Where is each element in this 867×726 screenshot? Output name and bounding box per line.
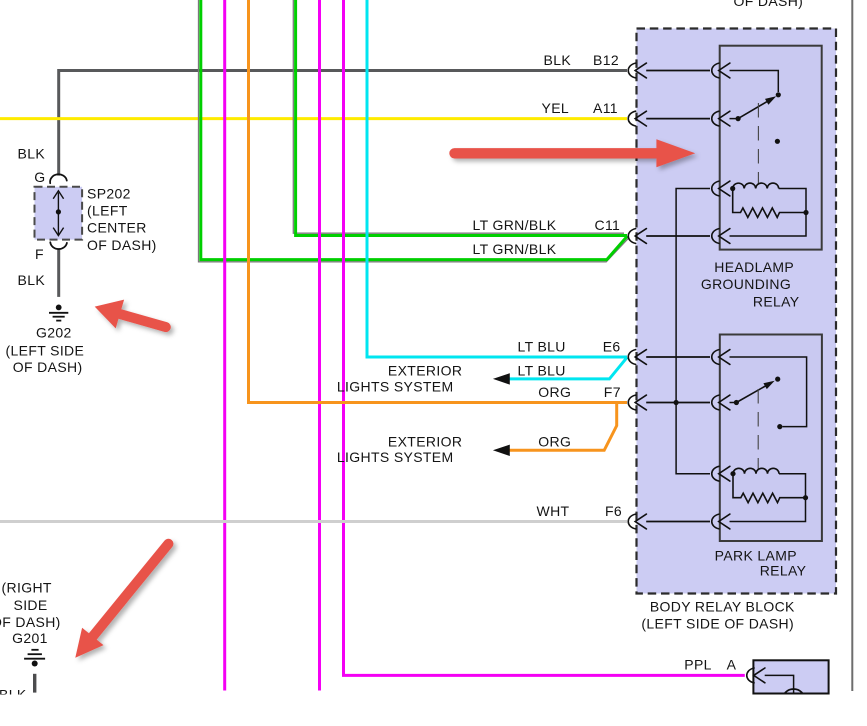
wire LT BLU to pin E6 [367, 0, 627, 357]
svg-text:C11: C11 [595, 217, 621, 233]
splice terminal G arc [50, 174, 67, 183]
svg-text:LT GRN/BLK: LT GRN/BLK [473, 217, 557, 233]
pin B12 outer connector [628, 63, 646, 78]
wire headlamp coil pin to park coil pin via junction [676, 189, 710, 474]
pin F7 inner connector [712, 395, 730, 410]
headlamp relay switch arm [730, 118, 739, 120]
park relay switch arrowhead [763, 381, 774, 389]
svg-text:CENTER: CENTER [87, 219, 147, 235]
svg-text:SP202: SP202 [87, 185, 131, 201]
svg-text:BODY RELAY BLOCK: BODY RELAY BLOCK [650, 599, 795, 615]
headlamp relay coil left junction [730, 186, 735, 191]
svg-text:F7: F7 [604, 384, 621, 400]
headlamp relay switch arrowhead [765, 96, 776, 105]
wire LT GRN/BLK #1 (upper, into C11) [296, 0, 627, 236]
svg-text:G201: G201 [12, 630, 48, 646]
wire pin F6 outer to inner [646, 521, 710, 523]
park relay switch pivot [734, 400, 739, 405]
wire BLK: vertical+horizontal dark gray to pin B12 [59, 71, 627, 176]
svg-text:ORG: ORG [538, 384, 571, 400]
splice terminal F arc [50, 242, 67, 249]
wire pin A11 outer to inner [646, 118, 710, 120]
svg-text:(LEFT: (LEFT [87, 202, 128, 218]
wire ORG to pin F7 [249, 0, 628, 403]
svg-text:SIDE: SIDE [14, 597, 48, 613]
pin A connector [747, 668, 765, 683]
svg-text:BLK: BLK [18, 146, 46, 162]
park relay switch arm [730, 402, 737, 404]
svg-text:RELAY: RELAY [760, 562, 807, 578]
svg-text:LT BLU: LT BLU [518, 338, 566, 354]
wire PPL #2 (full height) [318, 0, 321, 691]
svg-text:EXTERIOR: EXTERIOR [388, 362, 462, 378]
bottom crop mask [0, 695, 867, 726]
splice SP202 internal arrowed line [53, 191, 63, 236]
red annotation arrow at G201 [75, 539, 173, 658]
headlamp relay coil/resistor right junction [803, 210, 808, 215]
headlamp relay actuation dashed link [757, 103, 759, 184]
headlamp relay coil right lead [779, 189, 806, 213]
svg-text:EXTERIOR: EXTERIOR [388, 433, 462, 449]
park relay resistor [733, 474, 806, 503]
svg-text:LIGHTS SYSTEM: LIGHTS SYSTEM [337, 449, 454, 465]
wire LT GRN/BLK #2 black tracer [199, 0, 629, 262]
wire pin E6 outer to inner [646, 356, 710, 358]
park relay coil/resistor right junction [803, 495, 808, 500]
wire pin F7 outer to inner [646, 402, 710, 404]
right border line [851, 0, 853, 691]
svg-text:BLK: BLK [544, 52, 572, 68]
wire BLK: splice F to ground G202 [57, 250, 60, 297]
svg-text:B12: B12 [593, 52, 619, 68]
ground G201 [24, 650, 45, 667]
svg-text:PPL: PPL [684, 657, 712, 673]
ground G202 [49, 305, 68, 321]
svg-text:LT BLU: LT BLU [518, 362, 566, 378]
svg-text:(LEFT SIDE OF DASH): (LEFT SIDE OF DASH) [641, 615, 794, 631]
svg-text:HEADLAMP: HEADLAMP [714, 259, 794, 275]
park relay open contact [775, 377, 780, 382]
park relay wire junction to F6 [730, 498, 806, 522]
wire PPL #3 to pin A of bottom connector [344, 0, 745, 675]
headlamp relay: B12 internal wire to NC contact [730, 71, 779, 93]
svg-text:E6: E6 [603, 338, 621, 354]
junction dot on F7 feed [674, 400, 679, 405]
wire LT GRN/BLK #1 black tracer [293, 0, 624, 233]
svg-text:LT GRN/BLK: LT GRN/BLK [473, 241, 557, 257]
wire LT GRN/BLK #2 (lower, diagonal into C11) [201, 0, 627, 260]
red annotation arrow pointing right at headlamp relay [449, 139, 695, 167]
splice SP202 junction dot [56, 209, 61, 214]
svg-text:G202: G202 [36, 324, 72, 340]
park relay coil left junction [730, 471, 735, 476]
svg-text:PARK LAMP: PARK LAMP [715, 548, 797, 564]
wire BLK below ground G201 [33, 674, 36, 693]
svg-text:A11: A11 [593, 100, 618, 116]
pin C11 outer connector [628, 229, 646, 244]
park relay coil right lead [779, 474, 806, 498]
svg-text:OF DASH): OF DASH) [0, 614, 61, 630]
svg-text:A: A [727, 657, 737, 673]
wire ORG stub from exterior lights system [510, 403, 617, 451]
wire LT BLU stub from exterior lights system [510, 357, 628, 379]
svg-text:WHT: WHT [537, 503, 570, 519]
svg-text:OF DASH): OF DASH) [13, 359, 83, 375]
headlamp relay open contact [775, 139, 780, 144]
svg-text:YEL: YEL [542, 100, 570, 116]
bottom-right connector box (cut off) [753, 660, 828, 693]
park relay actuation dashed link [757, 389, 759, 470]
svg-text:F6: F6 [605, 503, 622, 519]
svg-text:(LEFT SIDE: (LEFT SIDE [6, 342, 85, 358]
park relay contact (connected to E6) [777, 424, 782, 429]
svg-text:G: G [34, 169, 45, 185]
park lamp relay coil pin [712, 466, 730, 481]
svg-text:OF DASH): OF DASH) [87, 237, 157, 253]
pin E6 inner connector [712, 350, 730, 365]
svg-text:OF DASH): OF DASH) [734, 0, 804, 9]
pin A11 outer connector [628, 111, 646, 126]
headlamp relay coil pin [712, 181, 730, 196]
wire WHT to pin F6 [0, 520, 627, 523]
pin E6 outer connector [628, 350, 646, 365]
wire pin B12 outer to inner [646, 70, 710, 72]
svg-text:BLK: BLK [18, 272, 46, 288]
headlamp relay switch pivot [736, 116, 741, 121]
pin F6 outer connector [628, 514, 646, 529]
exterior lights arrow 2 (ORG) [493, 445, 510, 456]
pin F6 inner connector [712, 514, 730, 529]
svg-text:(RIGHT: (RIGHT [2, 579, 52, 595]
headlamp relay resistor [733, 189, 806, 218]
svg-text:F: F [35, 246, 44, 262]
wire PPL #1 (full height) [223, 0, 226, 691]
headlamp relay wire junction to C11 [730, 213, 807, 237]
park lamp relay inner box [720, 335, 822, 542]
exterior lights arrow 1 (LT BLU) [493, 373, 510, 384]
svg-text:LIGHTS SYSTEM: LIGHTS SYSTEM [337, 378, 454, 394]
lamp circle (cut off) [782, 689, 805, 712]
body relay block (dashed outline, lavender) [637, 29, 837, 594]
pin B12 inner connector [712, 63, 730, 78]
headlamp grounding relay inner box [720, 46, 822, 250]
svg-text:ORG: ORG [538, 433, 571, 449]
pin F7 outer connector [628, 395, 646, 410]
wire YEL to pin A11 [0, 117, 627, 120]
park relay: E6 internal wire to contact [730, 357, 807, 427]
red annotation arrow at G202 [95, 300, 171, 332]
splice SP202 box (dashed, lavender) [35, 187, 83, 240]
pin C11 inner connector [712, 229, 730, 244]
park relay coil [733, 468, 779, 473]
svg-text:RELAY: RELAY [753, 293, 800, 309]
wire pin A into lamp [765, 675, 794, 693]
pin A11 inner connector [712, 111, 730, 126]
wire pin C11 outer to inner [646, 235, 710, 237]
headlamp relay coil [733, 183, 779, 188]
headlamp relay contact (connected to B12) [776, 92, 781, 97]
svg-text:GROUNDING: GROUNDING [701, 276, 791, 292]
